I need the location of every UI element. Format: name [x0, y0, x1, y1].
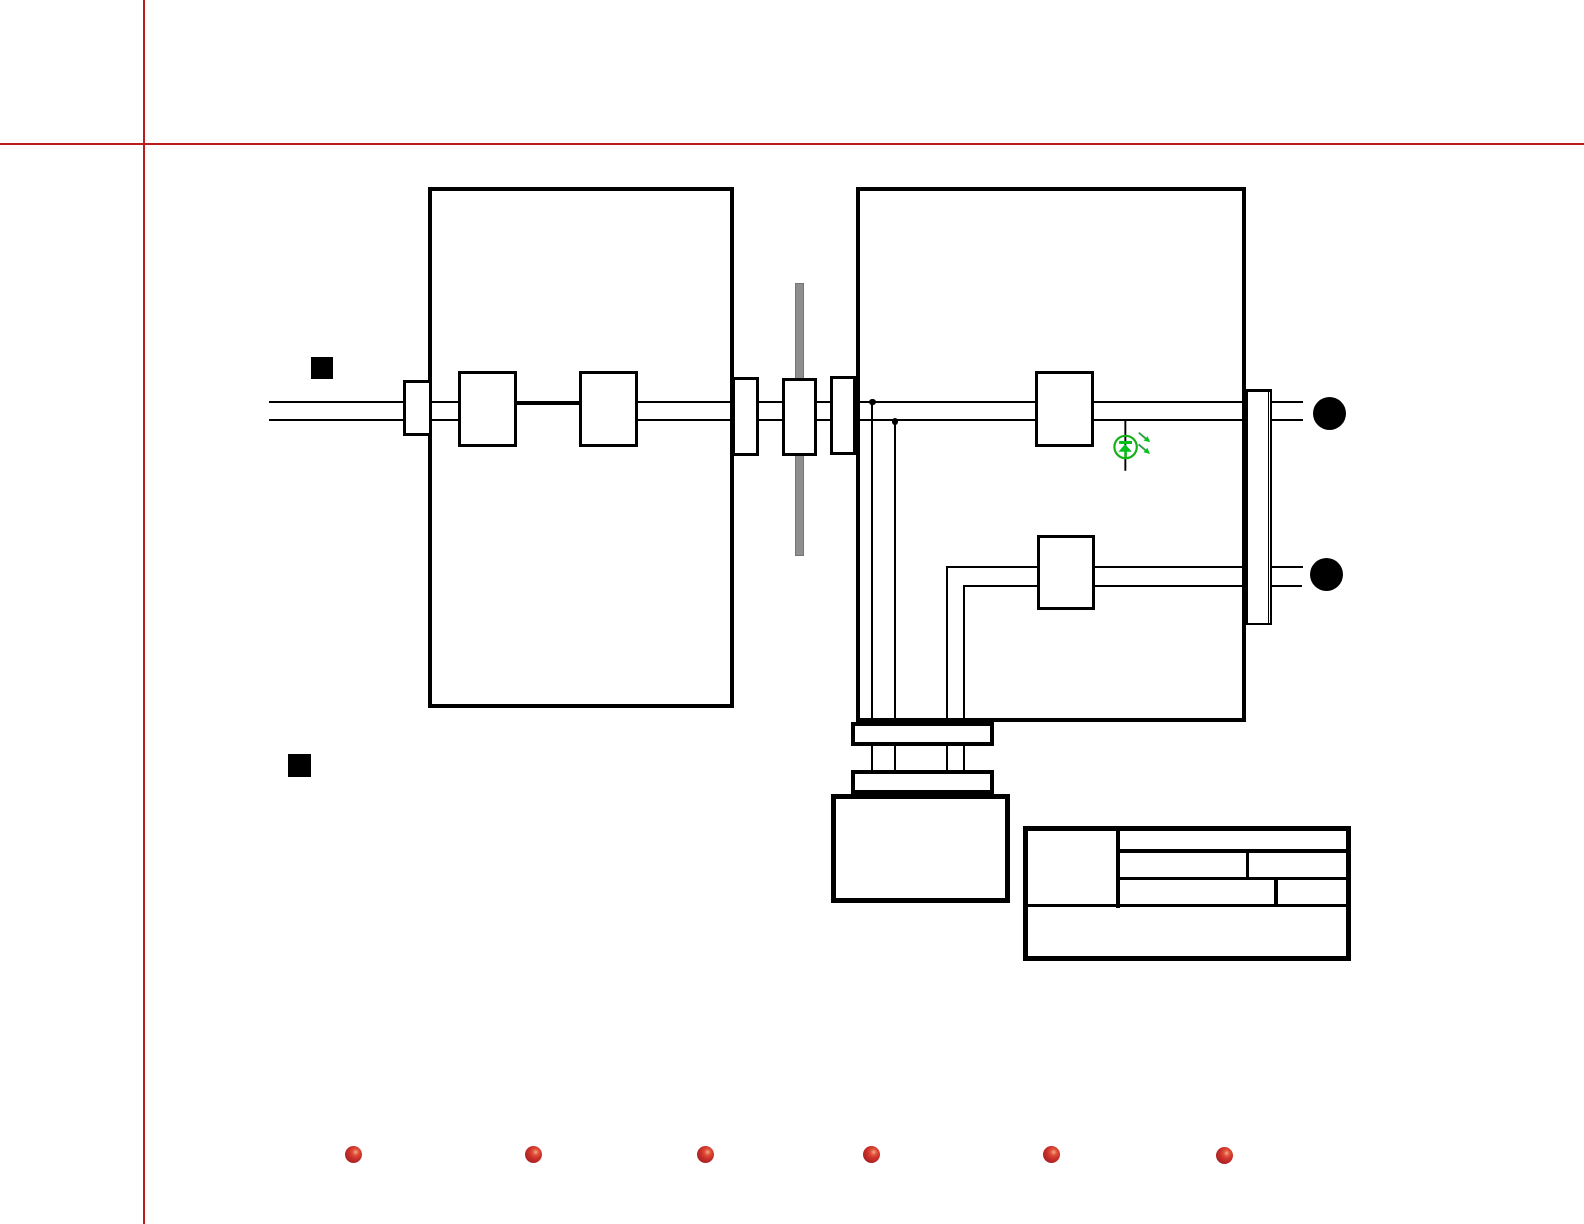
terminal strip top edge [1246, 389, 1272, 392]
coupling half left [732, 377, 759, 456]
title block line H3 [1025, 904, 1346, 908]
component block 4 [1037, 535, 1095, 610]
title block divider V1 [1116, 828, 1120, 908]
wire: lower loop bottom horizontal [963, 585, 1303, 587]
wire: inter-component connector (thick) [516, 402, 580, 405]
component block 2 [579, 371, 638, 447]
LED light arrow 1 shaft [1139, 433, 1146, 439]
LED anode stem [1124, 452, 1127, 459]
wire: lower loop top horizontal [946, 566, 1303, 568]
right machine box [856, 187, 1246, 722]
terminal strip left edge [1246, 389, 1249, 625]
fastener dot 6 [1216, 1147, 1233, 1164]
marker square 2 [288, 754, 311, 777]
wire: drop from node A [871, 403, 873, 795]
terminal strip fill [1248, 392, 1270, 624]
title block outer [1023, 826, 1352, 962]
mount flange bar 1 [851, 722, 994, 747]
node B junction dot [892, 418, 898, 424]
LED triangle [1118, 444, 1131, 452]
LED cathode bar [1119, 441, 1132, 444]
terminal circle G [1310, 558, 1343, 591]
red frame line vertical [143, 0, 146, 1224]
terminal strip outer right edge [1270, 389, 1272, 625]
wire: input shaft top line [269, 401, 1303, 403]
wire: shaft bottom line segment B [579, 419, 1303, 421]
title block line H2 [1117, 877, 1346, 881]
LED circle outline [1114, 436, 1136, 458]
coupling center element [782, 378, 817, 457]
LED lead wire [1124, 421, 1126, 471]
title block line H1 [1117, 849, 1346, 853]
terminal strip bottom edge [1246, 623, 1272, 626]
LED D1 with light arrows [1095, 418, 1157, 474]
title block divider V3 [1274, 878, 1278, 906]
gray bulkhead bar [795, 283, 803, 556]
component block 3 [1035, 371, 1094, 447]
left machine box [428, 187, 734, 708]
fastener dot 2 [525, 1146, 542, 1163]
fastener dot 3 [697, 1146, 714, 1163]
LED light arrow 2 head [1144, 448, 1151, 454]
wire: input shaft bottom line segment A [269, 419, 517, 421]
base unit box [831, 794, 1010, 903]
fastener dot 5 [1043, 1146, 1060, 1163]
component block 1 [458, 371, 517, 447]
LED light arrow 2 shaft [1139, 444, 1146, 450]
coupling half right [830, 376, 856, 456]
terminal strip inner right line [1268, 391, 1269, 623]
title block divider V2 [1246, 850, 1250, 879]
node A junction dot [869, 399, 875, 405]
mount flange bar 2 [851, 770, 994, 794]
fastener dot 4 [863, 1146, 880, 1163]
wire: lower loop left vertical 2 [963, 585, 965, 794]
marker square 1 [311, 357, 333, 379]
LED light arrow 1 head [1144, 436, 1151, 442]
bearing block on left box edge [403, 380, 432, 436]
wire: drop from node B [894, 421, 896, 794]
red frame line horizontal [0, 143, 1584, 146]
wire: lower loop left vertical 1 [946, 566, 948, 795]
terminal circle M [1313, 397, 1347, 431]
fastener dot 1 [345, 1146, 362, 1163]
